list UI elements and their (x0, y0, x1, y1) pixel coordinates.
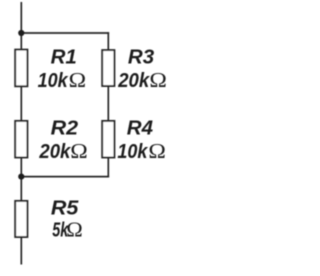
svg-text:Ω: Ω (70, 139, 88, 163)
wire R2 down to node B (20, 158, 22, 177)
value label 10kΩ for R1 (38, 68, 87, 92)
svg-text:20k: 20k (117, 69, 150, 92)
wire node B down to R5 (20, 177, 22, 201)
svg-text:R5: R5 (51, 197, 79, 220)
resistor R5 body (15, 201, 27, 237)
wire node A down to R1 (20, 33, 22, 50)
svg-text:Ω: Ω (149, 68, 167, 92)
wire R3 to R4 (107, 86, 109, 121)
svg-text:R1: R1 (51, 46, 77, 69)
value label 20kΩ for R3 (117, 68, 167, 92)
resistor R2 body (15, 121, 27, 158)
wire node A right to top of right branch (21, 32, 109, 34)
svg-text:10k: 10k (38, 69, 69, 92)
wire bottom tail below R5 (20, 237, 22, 264)
resistor R4 body (102, 121, 114, 158)
svg-text:R4: R4 (127, 116, 154, 139)
svg-text:Ω: Ω (66, 218, 83, 242)
svg-text:Ω: Ω (69, 68, 87, 92)
svg-text:R3: R3 (128, 46, 155, 69)
value label 20kΩ for R2 (38, 139, 87, 163)
wire bottom corner left to node B (21, 176, 109, 178)
wire R4 down to bottom corner (107, 158, 109, 178)
resistor R3 body (102, 50, 114, 86)
value label 10kΩ for R4 (117, 139, 165, 163)
wire right branch down to R3 (107, 32, 109, 50)
wire top feed into node A (20, 2, 22, 33)
svg-text:10k: 10k (117, 140, 148, 163)
value label 5kΩ for R5 (52, 218, 83, 242)
wire R1 to R2 (20, 87, 22, 122)
resistor R1 body (15, 50, 27, 87)
svg-text:Ω: Ω (148, 139, 166, 163)
node B junction dot (18, 174, 24, 180)
svg-text:20k: 20k (38, 140, 71, 163)
node A junction dot (18, 30, 24, 36)
svg-text:R2: R2 (51, 116, 79, 139)
